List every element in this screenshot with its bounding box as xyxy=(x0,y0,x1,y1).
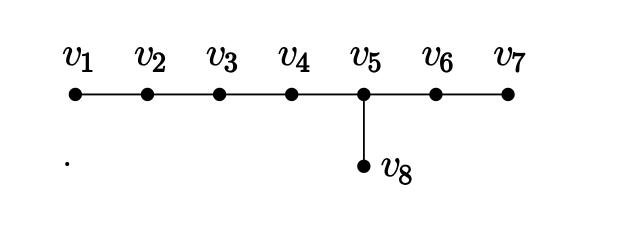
node v1 xyxy=(69,88,82,101)
label v8 xyxy=(382,158,412,184)
node v4 xyxy=(285,88,298,101)
stray period dot xyxy=(65,162,69,166)
label v4 xyxy=(279,47,309,71)
label v6 xyxy=(422,47,452,72)
label v7 xyxy=(494,47,525,72)
node v8 xyxy=(357,160,370,173)
label v5 xyxy=(351,47,381,72)
node v3 xyxy=(213,88,226,101)
label v3 xyxy=(207,47,237,72)
node v2 xyxy=(141,88,154,101)
node v6 xyxy=(429,88,442,101)
node v7 xyxy=(501,88,514,101)
label v2 xyxy=(135,47,165,71)
node v5 xyxy=(357,88,370,101)
label v1 xyxy=(63,47,92,71)
wire: pendant edge v5-v8 xyxy=(363,94,365,166)
wire: horizontal path edges v1-v2-v3-v4-v5-v6-v7 xyxy=(75,93,508,95)
